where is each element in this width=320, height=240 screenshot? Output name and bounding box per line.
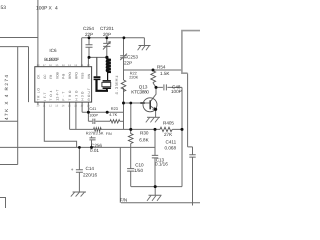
svg-text:XIN: XIN bbox=[87, 73, 91, 79]
long wire y147.4 with drop x120.3 to rail bbox=[0, 147, 155, 202]
collector wire bbox=[151, 87, 156, 101]
wire horizontal y164.5 exit left bbox=[0, 164, 18, 166]
svg-text:CC: CC bbox=[43, 74, 47, 79]
capacitor C14 electrolytic branch bbox=[76, 147, 83, 192]
wire horizontal y46.6 left edge bbox=[0, 46, 29, 48]
bottom rail y202.7 bbox=[121, 202, 200, 204]
svg-text:1/50: 1/50 bbox=[134, 168, 143, 173]
svg-text:4.3MHz: 4.3MHz bbox=[114, 76, 119, 95]
svg-text:C41: C41 bbox=[89, 106, 96, 111]
ground G1 stub and bar bbox=[149, 187, 162, 196]
emitter wire with arrow bbox=[151, 106, 156, 110]
svg-text:1.5K: 1.5K bbox=[160, 71, 170, 76]
svg-text:F/N: F/N bbox=[106, 132, 112, 136]
wire R54 lead to collector node bbox=[153, 83, 156, 87]
wire x182 C48 down to bottom wire bbox=[181, 87, 183, 186]
svg-text:CT201: CT201 bbox=[100, 26, 114, 31]
wire base node down to R30 node bbox=[130, 103, 132, 129]
svg-text:22P: 22P bbox=[124, 61, 132, 66]
IC pin numbers bottom bbox=[36, 104, 90, 107]
svg-text:C14: C14 bbox=[86, 166, 95, 171]
svg-text:3.5K: 3.5K bbox=[96, 130, 104, 135]
wire pin2 descend route to long wire bbox=[44, 102, 76, 147]
svg-text:100P: 100P bbox=[171, 89, 182, 94]
svg-text:4: 4 bbox=[55, 6, 58, 12]
thick tank circuit bbox=[94, 57, 111, 90]
wire y112.2 to bus bbox=[82, 111, 123, 113]
gray module outline top right bbox=[182, 31, 200, 74]
svg-text:BU2630F: BU2630F bbox=[44, 57, 59, 62]
svg-text:P-B: P-B bbox=[62, 74, 66, 79]
IC pin labels bottom row bbox=[37, 88, 91, 101]
svg-text:IC6: IC6 bbox=[49, 48, 57, 53]
svg-text:12-F-T: 12-F-T bbox=[55, 90, 59, 101]
bottom wire y186.6 bbox=[131, 186, 182, 188]
svg-text:XOB: XOB bbox=[55, 72, 59, 79]
svg-text:C254: C254 bbox=[83, 26, 94, 31]
wire vertical x28.5 bbox=[28, 47, 30, 103]
resistor R278 3.5K zigzag bbox=[94, 128, 102, 132]
svg-text:R278: R278 bbox=[86, 130, 95, 135]
wire pin7 descend to node wire bbox=[75, 102, 77, 129]
svg-text:0.068: 0.068 bbox=[165, 146, 177, 151]
thick bottom L wire bbox=[95, 80, 108, 91]
ground G2 bbox=[73, 191, 86, 193]
capacitor C13 vertical with plates bbox=[152, 129, 158, 186]
svg-text:F/N: F/N bbox=[120, 197, 127, 202]
svg-text:20P: 20P bbox=[103, 32, 111, 37]
wire module drop x187.6 jog x192.5 through capacitor C411 to rail bbox=[188, 73, 196, 205]
svg-text:6.8K: 6.8K bbox=[139, 137, 149, 142]
svg-text:H3O: H3O bbox=[74, 90, 78, 101]
wire vertical left bus x17.7 bbox=[17, 47, 19, 165]
wire horizontal y37.5 left edge bbox=[0, 37, 38, 39]
resistor R405 27K zigzag bbox=[160, 127, 172, 131]
resistor R54 1.5K zigzag bbox=[151, 70, 156, 83]
resistor R22 220K zigzag on bus bbox=[121, 80, 126, 92]
svg-text:C253: C253 bbox=[127, 55, 138, 60]
junction dots bbox=[78, 36, 184, 188]
svg-text:R23: R23 bbox=[111, 106, 118, 111]
svg-text:KTC3880: KTC3880 bbox=[131, 89, 149, 94]
svg-text:100P: 100P bbox=[89, 113, 98, 117]
corner box bottom left bbox=[0, 198, 6, 209]
crystal bottom stub to thick wire bbox=[106, 89, 108, 91]
svg-text:53: 53 bbox=[1, 5, 7, 11]
svg-text:VSS: VSS bbox=[81, 73, 85, 79]
svg-text:27K: 27K bbox=[164, 132, 173, 137]
capacitor C254 22P bbox=[86, 38, 93, 58]
wire R23 to bus bbox=[120, 120, 124, 122]
base wire Q13 bbox=[124, 102, 151, 104]
capacitor C48 wire and plates bbox=[156, 84, 182, 90]
ground G4 mid bbox=[147, 116, 160, 118]
svg-text:4.7K: 4.7K bbox=[109, 112, 117, 117]
svg-text:0.1/16: 0.1/16 bbox=[155, 162, 168, 167]
capacitor C41 lower branch bbox=[88, 112, 110, 124]
crystal body box bbox=[102, 82, 111, 86]
svg-text:+: + bbox=[71, 167, 74, 172]
svg-text:FR: FR bbox=[49, 74, 53, 79]
wire y57.4 C254 to tank bbox=[89, 56, 107, 58]
svg-text:R405: R405 bbox=[163, 121, 174, 126]
svg-text:I F-T: I F-T bbox=[43, 93, 47, 101]
wire pin8 pin9 stubs to y112.2 bbox=[82, 102, 88, 112]
svg-text:0.01: 0.01 bbox=[90, 148, 99, 153]
svg-text:H3O: H3O bbox=[81, 91, 85, 101]
capacitor C10 with R30 lead bbox=[127, 144, 134, 187]
svg-text:RPO: RPO bbox=[68, 72, 72, 79]
svg-text:220/16: 220/16 bbox=[83, 173, 97, 178]
rail y37.8 bbox=[82, 37, 145, 39]
svg-text:TR LO: TR LO bbox=[37, 88, 41, 101]
IC pin numbers top bbox=[37, 64, 91, 67]
svg-text:C411: C411 bbox=[166, 140, 177, 145]
coil to crystal stub bbox=[108, 72, 111, 80]
svg-text:TRO: TRO bbox=[68, 90, 72, 101]
inductor coil bbox=[107, 60, 111, 72]
capacitor C253 22P variable bbox=[120, 56, 127, 130]
junction dash on base wire bbox=[140, 102, 145, 104]
svg-text:R54: R54 bbox=[157, 65, 166, 70]
node wire y129.4 bbox=[70, 128, 182, 130]
IC U6 BU2630F body bbox=[35, 67, 92, 102]
wire bus x123.5 from rail down through C253 bbox=[123, 38, 125, 56]
svg-text:TO4: TO4 bbox=[49, 90, 53, 100]
svg-text:C10: C10 bbox=[135, 163, 144, 168]
capacitor C256 stub and plates bbox=[89, 136, 95, 147]
ground G3 top bbox=[139, 38, 151, 46]
pin 11 stub bbox=[87, 57, 89, 66]
transistor Q13 circle bbox=[143, 98, 157, 112]
wire y70 bus to module bbox=[124, 69, 182, 71]
crystal plates bbox=[103, 80, 111, 82]
svg-text:220K: 220K bbox=[129, 75, 138, 79]
svg-text:R30: R30 bbox=[140, 131, 149, 136]
node wire thick top bbox=[107, 57, 111, 60]
resistor R30 6.8K zigzag vertical bbox=[128, 129, 133, 143]
svg-text:RPO: RPO bbox=[74, 72, 78, 79]
IC pin labels top row bbox=[37, 72, 91, 79]
thin wire node to cap bbox=[96, 57, 98, 76]
wire pin1 short stub bbox=[37, 102, 39, 105]
wire horizontal y121.3 exit left bbox=[0, 120, 18, 122]
svg-text:F-T: F-T bbox=[62, 92, 66, 101]
wire pin12 stub up to rail bbox=[81, 38, 83, 67]
svg-text:ROUT: ROUT bbox=[87, 88, 91, 101]
svg-text:100P: 100P bbox=[36, 6, 47, 12]
trimmer capacitor CT201 20P bbox=[103, 38, 110, 58]
thick cap plates XIN bbox=[94, 77, 101, 79]
wire emitter dot to ground stub bbox=[155, 109, 157, 117]
resistor R23 4.7K zigzag bbox=[110, 120, 120, 123]
wire pin18 vertical to top edge bbox=[37, 0, 39, 67]
svg-text:22P: 22P bbox=[85, 32, 93, 37]
wire pin6 descend to node wire bbox=[69, 102, 71, 129]
transistor Q13 base bar bbox=[149, 100, 151, 109]
